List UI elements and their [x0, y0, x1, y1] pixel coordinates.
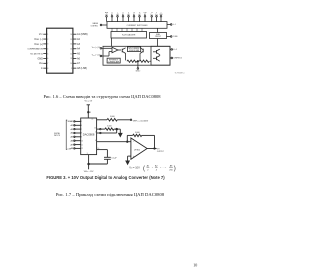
svg-text:6: 6 [81, 125, 82, 127]
svg-text:7: 7 [47, 63, 48, 65]
svg-text:GND: GND [159, 14, 163, 16]
svg-text:2: 2 [147, 169, 149, 171]
svg-text:A1: A1 [147, 165, 150, 168]
svg-text:Рис. 1.7 – Приклад схеми підкл: Рис. 1.7 – Приклад схеми підключення ЦАП… [56, 192, 165, 197]
svg-text:CONTROL: CONTROL [91, 25, 98, 27]
svg-text:8: 8 [123, 12, 124, 14]
svg-text:14: 14 [92, 118, 94, 120]
svg-text:R-2R LADDER: R-2R LADDER [122, 34, 136, 37]
svg-text:13: 13 [89, 112, 91, 114]
svg-text:COMPENSATION: COMPENSATION [27, 48, 43, 51]
svg-text:12: 12 [70, 53, 72, 55]
svg-text:2: 2 [47, 39, 48, 41]
svg-text:LSB: LSB [68, 148, 71, 150]
svg-text:4: 4 [95, 140, 96, 142]
svg-text:2: 2 [161, 12, 162, 14]
svg-text:VO = 10V: VO = 10V [129, 166, 140, 170]
svg-text:LF351: LF351 [134, 149, 141, 151]
svg-text:VEE 3: VEE 3 [173, 49, 177, 51]
svg-text:4: 4 [47, 48, 48, 50]
svg-text:A3: A3 [77, 43, 81, 46]
svg-text:Рис. 1.6 – Схема виводів та ст: Рис. 1.6 – Схема виводів та структурна с… [44, 94, 162, 99]
svg-text:5: 5 [47, 53, 48, 55]
svg-text:6: 6 [47, 58, 48, 60]
svg-text:11: 11 [139, 12, 141, 14]
svg-text:DIGITAL: DIGITAL [54, 132, 60, 135]
svg-text:A6: A6 [77, 57, 81, 60]
svg-text:A1 (MSB): A1 (MSB) [77, 33, 88, 36]
svg-text:VO: VO [157, 148, 160, 150]
svg-text:13: 13 [70, 48, 72, 50]
svg-text:VCC: VCC [150, 14, 153, 16]
svg-text:11: 11 [81, 144, 83, 146]
svg-text:5.000: 5.000 [107, 125, 112, 127]
svg-text:CURRENT SWITCHES: CURRENT SWITCHES [127, 25, 149, 27]
svg-text:MSB: MSB [68, 121, 71, 123]
svg-text:VREF (−): VREF (−) [34, 38, 43, 41]
svg-text:CIRCUIT: CIRCUIT [155, 36, 161, 38]
svg-text:VCC: VCC [39, 33, 44, 36]
svg-text:(: ( [143, 166, 145, 172]
svg-text:VEE: VEE [39, 62, 44, 65]
svg-text:9: 9 [81, 137, 82, 139]
svg-text:VREF (−) 15: VREF (−) 15 [92, 55, 100, 57]
svg-text:NPN CURRENT: NPN CURRENT [129, 48, 140, 50]
svg-text:−: − [133, 141, 135, 144]
svg-text:8: 8 [81, 133, 82, 135]
svg-text:10: 10 [193, 262, 197, 267]
svg-text:3: 3 [47, 44, 48, 46]
svg-text:A4: A4 [77, 48, 81, 51]
svg-text:15: 15 [70, 39, 72, 41]
svg-text:5: 5 [81, 121, 82, 123]
svg-text:8: 8 [47, 68, 48, 70]
svg-text:16: 16 [98, 148, 100, 150]
svg-text:11: 11 [71, 58, 73, 60]
svg-text:1: 1 [47, 34, 48, 36]
svg-text:A8: A8 [170, 165, 173, 168]
svg-text:9: 9 [71, 68, 72, 70]
svg-text:BIAS: BIAS [156, 33, 160, 36]
svg-text:A7: A7 [77, 62, 81, 65]
svg-text:3: 3 [87, 153, 88, 155]
svg-text:3: 3 [156, 12, 157, 14]
svg-text:REFERENCE: REFERENCE [109, 59, 118, 61]
svg-text:6: 6 [112, 12, 113, 14]
svg-text:7: 7 [81, 129, 82, 131]
svg-text:OUTPUT: OUTPUT [157, 151, 164, 153]
svg-text:COMPEN 16: COMPEN 16 [173, 58, 182, 60]
svg-text:16: 16 [70, 34, 72, 36]
svg-text:9: 9 [128, 12, 129, 14]
svg-text:MSB: MSB [105, 12, 108, 14]
svg-text:10: 10 [70, 63, 72, 65]
svg-text:TL/H/5687-1: TL/H/5687-1 [175, 73, 185, 75]
svg-text:5.000: 5.000 [110, 116, 115, 118]
svg-text:): ) [174, 166, 176, 172]
svg-text:A2: A2 [155, 165, 158, 168]
svg-text:A5: A5 [77, 52, 81, 55]
svg-text:VREF (+) 14: VREF (+) 14 [92, 47, 100, 49]
svg-text:12: 12 [81, 148, 83, 150]
svg-text:A2: A2 [77, 38, 81, 41]
svg-text:VEE: VEE [155, 14, 158, 16]
svg-text:+ . . . +: + . . . + [160, 167, 167, 169]
svg-text:GND: GND [37, 57, 43, 60]
svg-text:A8 (LSB): A8 (LSB) [77, 67, 87, 70]
svg-text:VREF = +10.000V: VREF = +10.000V [133, 121, 149, 123]
svg-text:10: 10 [81, 140, 83, 142]
svg-text:RANGE: RANGE [93, 22, 98, 25]
svg-text:LSB: LSB [144, 12, 147, 14]
svg-text:VEE = −15V: VEE = −15V [84, 171, 94, 173]
svg-text:GND 2: GND 2 [136, 71, 141, 73]
svg-text:2: 2 [95, 132, 96, 134]
svg-text:VCC = 5V: VCC = 5V [84, 101, 92, 103]
svg-text:IO 4: IO 4 [173, 24, 176, 26]
svg-text:10: 10 [133, 12, 135, 14]
svg-text:VREF (+): VREF (+) [34, 43, 43, 46]
svg-text:INPUTS: INPUTS [54, 135, 60, 137]
svg-text:4: 4 [156, 169, 158, 171]
svg-text:14: 14 [70, 44, 72, 46]
svg-text:5.000: 5.000 [135, 132, 140, 134]
svg-text:NC (NOTE 2): NC (NOTE 2) [30, 53, 43, 55]
svg-text:DAC0808: DAC0808 [83, 132, 95, 136]
svg-text:IO: IO [41, 67, 44, 70]
svg-text:+: + [152, 167, 154, 169]
svg-text:13: 13 [151, 12, 153, 14]
svg-text:15: 15 [94, 128, 96, 130]
svg-text:7: 7 [117, 12, 118, 14]
svg-text:FIGURE 3. + 10V Output Digital: FIGURE 3. + 10V Output Digital to Analog… [46, 175, 165, 180]
svg-text:2 GND: 2 GND [173, 36, 179, 38]
svg-text:0.1 μF: 0.1 μF [112, 157, 118, 159]
